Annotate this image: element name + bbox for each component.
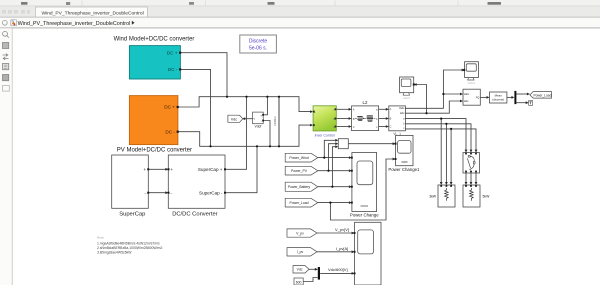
- svg-text:3.B5mgs8ae4W5s5kW: 3.B5mgs8ae4W5s5kW: [97, 250, 132, 254]
- svg-text:600: 600: [296, 281, 302, 285]
- svg-text:V_pv[V]: V_pv[V]: [335, 227, 349, 232]
- svg-text:Power_Battery: Power_Battery: [288, 185, 311, 189]
- svg-text:Inver Control: Inver Control: [315, 134, 335, 138]
- svg-text:DC +: DC +: [167, 50, 178, 55]
- svg-text:PQ: PQ: [476, 97, 480, 100]
- svg-text:Vabc: Vabc: [464, 93, 470, 96]
- svg-text:Vabc1: Vabc1: [468, 81, 476, 85]
- svg-text:Wind Model+DC/DC converter: Wind Model+DC/DC converter: [114, 36, 195, 42]
- svg-text:L2: L2: [363, 100, 368, 105]
- svg-text:C: C: [334, 125, 336, 129]
- svg-text:A: A: [334, 108, 336, 112]
- svg-text:Power Change: Power Change: [350, 212, 379, 217]
- svg-text:2.sNm5idaBERBzBa,1000W/m2B600W: 2.sNm5idaBERBzBa,1000W/m2B600W/m2: [97, 246, 163, 250]
- svg-text:+: +: [171, 167, 174, 172]
- svg-text:DC/DC Converter: DC/DC Converter: [172, 212, 217, 218]
- svg-text:(discrete): (discrete): [492, 97, 504, 101]
- svg-text:B: B: [353, 117, 355, 121]
- svg-text:3kW: 3kW: [429, 195, 437, 199]
- svg-text:5kW: 5kW: [483, 195, 491, 199]
- svg-text:Vdc: Vdc: [297, 268, 303, 272]
- svg-text:-: -: [314, 124, 315, 127]
- svg-text:Vdcf: Vdcf: [255, 124, 262, 128]
- svg-text:Power Change1: Power Change1: [388, 167, 420, 172]
- svg-text:C2000uF: C2000uF: [274, 116, 277, 126]
- svg-text:Power_Load: Power_Load: [533, 93, 551, 97]
- svg-text:C: C: [390, 125, 392, 128]
- svg-text:Power_Load: Power_Load: [289, 201, 308, 205]
- svg-text:Iabc: Iabc: [400, 112, 405, 115]
- svg-text:DC +: DC +: [164, 105, 175, 110]
- svg-text:C: C: [353, 125, 355, 129]
- svg-text:DC -: DC -: [168, 67, 178, 72]
- svg-text:Iabc: Iabc: [464, 100, 469, 103]
- svg-text:I_pv[A]: I_pv[A]: [336, 246, 348, 251]
- svg-text:SuperCap +: SuperCap +: [198, 167, 223, 172]
- svg-text:SuperCap: SuperCap: [119, 212, 145, 218]
- svg-text:Wind_PV_Threephase_inverter_Do: Wind_PV_Threephase_inverter_DoubleContro…: [18, 21, 131, 27]
- svg-text:5e-06 s.: 5e-06 s.: [249, 46, 267, 52]
- svg-text:+: +: [143, 167, 146, 172]
- svg-text:Wind_PV_Threephase_inverter_Do: Wind_PV_Threephase_inverter_DoubleContro…: [42, 10, 144, 16]
- svg-text:Power_Wind: Power_Wind: [289, 156, 308, 160]
- svg-text:Vdc/600[V]: Vdc/600[V]: [328, 267, 348, 272]
- svg-text:Power_PV: Power_PV: [291, 169, 308, 173]
- svg-text:+: +: [260, 114, 262, 118]
- svg-text:DC -: DC -: [165, 129, 175, 134]
- svg-text:Iabc1: Iabc1: [403, 96, 410, 100]
- svg-text:SuperCap -: SuperCap -: [199, 190, 223, 195]
- svg-text:V_pv: V_pv: [296, 231, 304, 235]
- svg-text:-: -: [261, 119, 262, 123]
- svg-text:Discrete: Discrete: [249, 39, 268, 45]
- svg-text:Vabc: Vabc: [399, 107, 405, 110]
- svg-text:PV Model+DC/DC converter: PV Model+DC/DC converter: [117, 148, 192, 154]
- svg-text:Note:: Note:: [97, 236, 105, 240]
- svg-text:1.mgaAsfBd8e4BN5Bm/s 4sW12m/s7: 1.mgaAsfBd8e4BN5Bm/s 4sW12m/s7m/s: [97, 241, 160, 245]
- svg-text:A: A: [353, 108, 355, 112]
- svg-text:B: B: [334, 117, 336, 121]
- svg-text:Vdc: Vdc: [231, 117, 237, 121]
- svg-text:I_pv: I_pv: [297, 250, 304, 254]
